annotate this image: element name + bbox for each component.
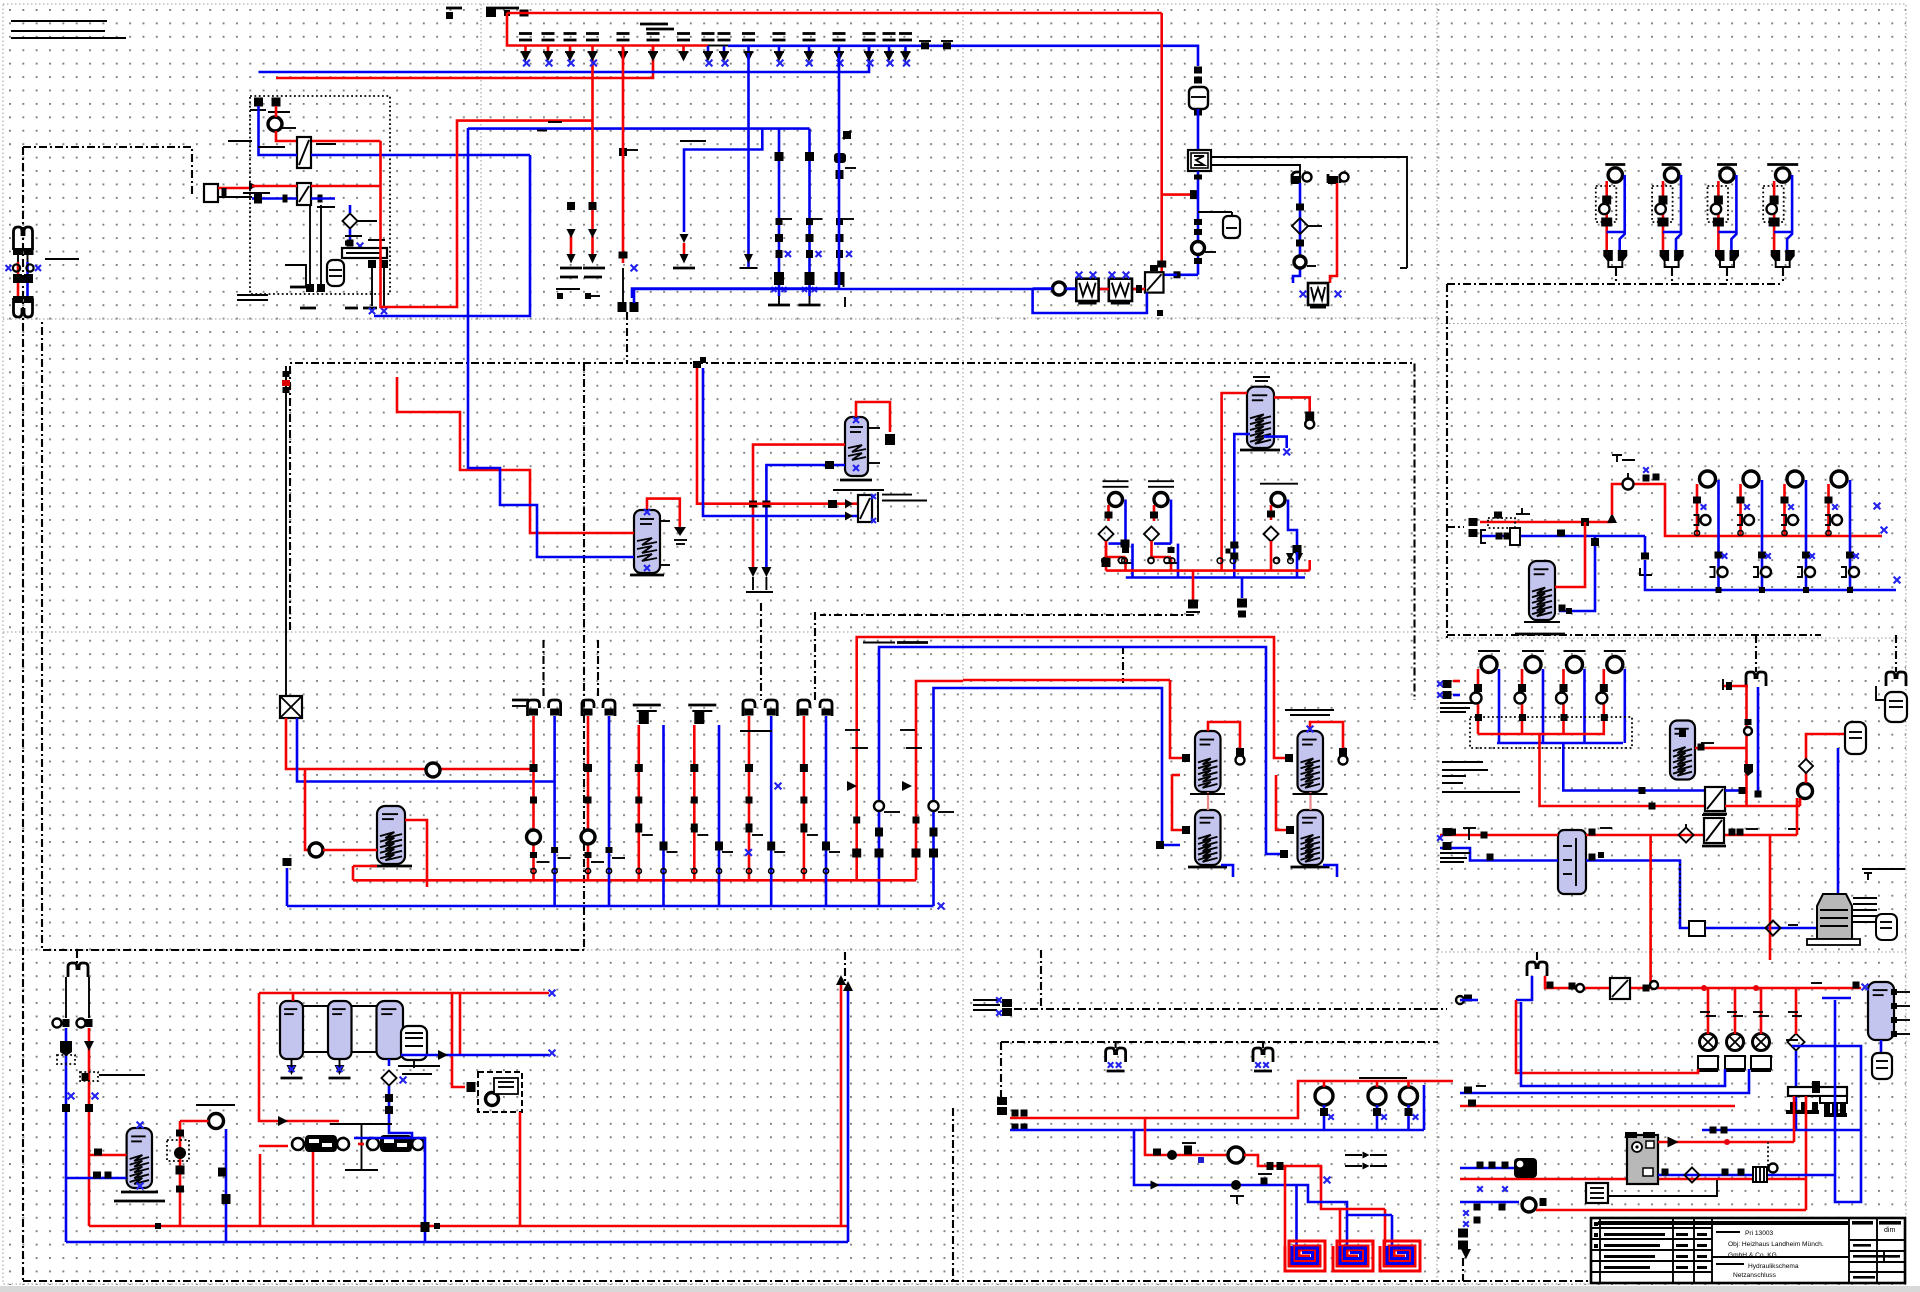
blue drop w/ filter bbox=[1188, 67, 1407, 275]
wp tank bbox=[1670, 721, 1747, 780]
main riser x=1161.7 bbox=[1160, 13, 1163, 272]
wire blue bbox=[259, 106, 298, 155]
fresh water unit bbox=[167, 1105, 235, 1242]
bottom gray strip bbox=[0, 1286, 1920, 1292]
title text lines top-left bbox=[11, 20, 107, 22]
gas boiler supply header bbox=[1545, 976, 1861, 988]
left entries lower bbox=[1460, 1158, 1547, 1227]
couplings to existing building bbox=[973, 997, 1012, 1016]
gray panel dividers bbox=[480, 4, 482, 319]
blue staircase return bbox=[468, 316, 634, 557]
heat exchanger bbox=[297, 137, 311, 168]
hp pump 1533 bbox=[1515, 651, 1545, 743]
mixer riser from boundary bbox=[280, 366, 555, 782]
HX2 mid bbox=[1704, 818, 1724, 843]
pump 1377 bbox=[1368, 1087, 1386, 1105]
red loop up through gauge bbox=[1607, 513, 1617, 523]
pump units horizontal bbox=[292, 1135, 349, 1152]
buses bottom bbox=[89, 1225, 848, 1228]
wire red supply bbox=[275, 106, 278, 117]
radiator circuit 3 bbox=[1708, 165, 1740, 268]
solar pump bbox=[1053, 282, 1066, 295]
t3 connections bbox=[388, 1059, 391, 1066]
entry connector bbox=[204, 184, 218, 202]
red tee to blue line bbox=[1162, 193, 1193, 196]
riser 839 return path bbox=[632, 53, 839, 298]
dhw pump group 3 bbox=[1260, 484, 1303, 578]
blue drop right bbox=[1725, 789, 1740, 792]
main red/blue feed lines bbox=[276, 46, 653, 78]
sensor symbol bbox=[1612, 455, 1635, 462]
manifold riser pair 5 bbox=[743, 700, 785, 906]
bottom marks bbox=[300, 307, 316, 310]
DHW tank A1 bbox=[397, 316, 687, 575]
dhw pump group 1 bbox=[1099, 481, 1134, 577]
hp pump right bbox=[1798, 784, 1813, 799]
signal wires bbox=[1211, 157, 1407, 268]
column 2 piping bbox=[963, 637, 1289, 758]
pump 1324 bbox=[1315, 1087, 1333, 1105]
pump 1408.5 bbox=[1400, 1087, 1418, 1105]
wall boiler dashed bbox=[478, 1072, 522, 1112]
hydraulic separator mid bbox=[1440, 828, 1817, 928]
manifold assembly bbox=[1786, 1081, 1847, 1117]
label text lines bbox=[1442, 761, 1483, 763]
hanging couplings bbox=[1106, 1048, 1126, 1071]
dhw pump group 2 bbox=[1144, 481, 1179, 577]
solar HX row bbox=[1033, 272, 1163, 316]
boiler gray top bbox=[1807, 869, 1905, 945]
hp pump 1574.5 bbox=[1556, 651, 1586, 743]
red staircase feed bbox=[397, 377, 634, 533]
svg-text:Hydraulikschema: Hydraulikschema bbox=[1748, 1263, 1799, 1270]
hp manifold exits bbox=[1540, 734, 1706, 806]
blue entry left bbox=[1516, 976, 1532, 1000]
storage tank boiler room2 bbox=[1515, 522, 1599, 634]
feed couplings from left (upper) bbox=[1437, 680, 1473, 712]
column 1 piping bbox=[1170, 680, 1187, 758]
freshwater HX station bbox=[693, 357, 927, 523]
top coupling bbox=[1527, 962, 1547, 976]
blue links to panel2 risers bbox=[963, 288, 1137, 291]
mixing group to floor heating bbox=[1134, 1118, 1297, 1204]
safety valve bbox=[647, 499, 680, 527]
radiator circuit 1 bbox=[1596, 165, 1628, 268]
svg-text:Pri 13003: Pri 13003 bbox=[1745, 1230, 1774, 1237]
heat exchanger 2 bbox=[297, 183, 311, 205]
mixing valve 1735 bbox=[1725, 988, 1745, 1072]
hot water tank bbox=[66, 1122, 165, 1201]
radiator circuit 4 bbox=[1763, 165, 1798, 268]
riser 839.5 fittings bbox=[843, 131, 851, 139]
mixing valve box bbox=[1177, 273, 1198, 276]
expansion vessel bbox=[327, 260, 344, 286]
circuit 1751 bbox=[1737, 471, 1772, 593]
right small tank bbox=[1862, 982, 1910, 1079]
legend marks bbox=[1345, 1154, 1362, 1156]
boiler room 2 entry bbox=[1447, 508, 1645, 545]
buffer tanks bbox=[280, 1001, 440, 1140]
wrap lines bbox=[1516, 1000, 1698, 1073]
separator feed couplings left mid bbox=[1437, 828, 1470, 862]
left risers down bbox=[65, 1028, 68, 1242]
air separator horizontal bbox=[342, 248, 387, 258]
dhw bus drops bbox=[1192, 571, 1195, 600]
unit piping bbox=[290, 1120, 339, 1123]
tank column 1 bbox=[1188, 731, 1227, 867]
diamond pump bbox=[1788, 1034, 1805, 1051]
sigma controller box bbox=[1188, 150, 1211, 171]
coil 3 bbox=[1380, 1241, 1420, 1271]
hp manifold dotted box bbox=[1470, 717, 1632, 748]
mixing valve 1761 bbox=[1751, 988, 1771, 1072]
radiator circuit 2 bbox=[1652, 165, 1684, 268]
coil 2 bbox=[1333, 1241, 1373, 1271]
valve diamond bbox=[343, 214, 358, 229]
manifold riser pair 6 bbox=[798, 700, 840, 906]
exp vessel 2 bbox=[1845, 722, 1866, 754]
riser 779 bbox=[778, 129, 781, 296]
boiler2 piping bbox=[1658, 1141, 1794, 1144]
title block bbox=[1591, 1218, 1905, 1283]
expansion vessel top right bbox=[1885, 692, 1907, 722]
svg-text:dim: dim bbox=[1884, 1227, 1895, 1234]
manifold riser pair 4 bbox=[688, 705, 733, 906]
mixing box with X bbox=[280, 696, 302, 718]
red drops to lower panel bbox=[1649, 835, 1652, 988]
manifold riser pair 2 bbox=[581, 700, 625, 906]
flue bbox=[1586, 1183, 1608, 1203]
heating manifold buses bbox=[353, 879, 916, 882]
fittings on feed verticals bbox=[847, 781, 857, 791]
feed lines to right wing bbox=[857, 637, 963, 880]
riser 809.5 bbox=[808, 129, 811, 296]
DHW tank A2 bbox=[746, 402, 895, 592]
bottom-left coupling d bbox=[1458, 1229, 1468, 1238]
hp HX1 bbox=[1705, 787, 1725, 811]
tank column 2 bbox=[1291, 731, 1330, 867]
gas boiler 2 bbox=[1625, 1132, 1658, 1184]
heating mains lower left bbox=[1012, 1110, 1019, 1117]
red header over tanks bbox=[259, 992, 549, 995]
mixing valve 1708 bbox=[1698, 988, 1718, 1072]
circuit 1707.5 bbox=[1693, 471, 1728, 593]
coil 1 bbox=[1285, 1241, 1325, 1271]
riser couplings top right bbox=[1746, 672, 1766, 686]
pump P-hz bbox=[268, 117, 282, 131]
riser pair from below bbox=[753, 445, 845, 567]
Heizzentrale box bbox=[250, 96, 390, 294]
district heating entry left bbox=[6, 227, 80, 317]
manifold riser pair 3 bbox=[633, 705, 678, 906]
black pipes down bbox=[309, 205, 311, 288]
DHW tank bbox=[1222, 377, 1315, 578]
solar collector circuit right bbox=[1291, 172, 1349, 309]
white box + diamond on blue 928 bbox=[1689, 921, 1705, 936]
circuit 1795 bbox=[1781, 471, 1816, 593]
solar boiler bbox=[1308, 283, 1328, 305]
bus risers down bbox=[567, 202, 575, 210]
buffer tank small bbox=[283, 769, 428, 906]
manifold riser pair 1 bbox=[527, 700, 571, 906]
svg-text:Netzanschluss: Netzanschluss bbox=[1733, 1272, 1777, 1279]
circuit 1839 bbox=[1825, 471, 1860, 593]
blue return bus bbox=[1644, 536, 1647, 553]
svg-text:Obj: Heizhaus Landheim Münch.: Obj: Heizhaus Landheim Münch. bbox=[1728, 1241, 1824, 1248]
blue down from sigma bbox=[1197, 171, 1200, 275]
bottom-left riser coupling bbox=[53, 963, 93, 1028]
DG riser pair bbox=[0, 0, 1, 1]
boiler hydraulics long runs bbox=[1805, 1096, 1808, 1210]
hp pump 1614.8 bbox=[1596, 651, 1626, 743]
top distribution bus bbox=[446, 7, 462, 10]
misc fittings on bus bbox=[434, 1223, 440, 1229]
expansion vessel bbox=[401, 1026, 427, 1060]
dhw buses bbox=[1106, 569, 1310, 572]
floor heating feeders bbox=[1284, 1166, 1287, 1246]
hp pump 1489 bbox=[1471, 651, 1501, 743]
